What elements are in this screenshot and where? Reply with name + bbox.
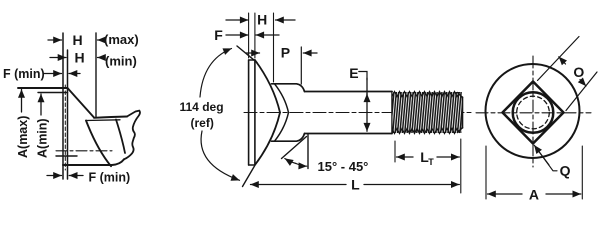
svg-text:L: L [351, 177, 360, 193]
dim A(min) arrow [40, 94, 42, 115]
shank top edge [94, 117, 127, 118]
114 deg upper reference slash [237, 46, 257, 63]
dim F (min) top [44, 73, 62, 75]
head flat face inner line [67, 50, 69, 179]
A(max) extension line (head top) [18, 87, 68, 89]
head flat face (double line) [248, 60, 250, 165]
shank bottom edge [305, 133, 393, 135]
bolt centerline [244, 112, 474, 114]
svg-text:F (min): F (min) [89, 171, 131, 185]
svg-text:A: A [529, 186, 539, 202]
dim LT extension left [394, 141, 396, 162]
cone silhouette upper arc [255, 60, 280, 113]
svg-text:(ref): (ref) [191, 116, 214, 130]
A(min) extension line [38, 92, 68, 94]
thread body hatch [393, 92, 463, 133]
thread end face [462, 97, 464, 128]
dim LT [397, 156, 414, 158]
shank top edge [305, 91, 393, 93]
svg-text:(min): (min) [105, 54, 137, 69]
thread runout line [391, 92, 393, 134]
dim E vertical line [366, 94, 368, 112]
H extension line (head apex) [273, 13, 275, 82]
neck intersection arc 2 [116, 120, 125, 154]
hidden circle (dashed) [517, 96, 550, 129]
Q leader [535, 146, 557, 171]
end view vertical centerline [532, 56, 534, 167]
svg-text:15° - 45°: 15° - 45° [318, 159, 369, 174]
end view horizontal centerline [476, 112, 591, 114]
thread end chamfer bottom [458, 128, 463, 133]
thread crest top zigzag [392, 92, 460, 97]
114 deg upper leader arc [200, 49, 232, 98]
dim P [246, 52, 260, 54]
cone-neck intersection lower arc [275, 113, 289, 142]
conventional break (S-curve) [124, 111, 140, 160]
dim F (min) bottom [47, 175, 62, 177]
neck end line / P extension [300, 47, 302, 84]
svg-text:E: E [349, 65, 358, 81]
dim A(max) arrow [21, 90, 23, 113]
dim L line [251, 184, 347, 186]
neck intersection arc 1 [86, 121, 111, 167]
svg-text:A(max): A(max) [16, 116, 30, 158]
svg-text:F (min): F (min) [3, 67, 45, 81]
A(min) bottom reference line [56, 155, 77, 157]
dim LT/L extension right [460, 139, 462, 193]
dim H row 2 [50, 57, 66, 59]
square neck bottom edge [272, 134, 305, 142]
svg-text:(max): (max) [104, 32, 139, 47]
svg-text:A(min): A(min) [36, 118, 50, 158]
H (max)/(min) extension line [95, 33, 97, 118]
svg-text:H: H [73, 32, 83, 48]
dim A extension left [485, 146, 487, 199]
hidden dashed line of flat face [64, 85, 66, 170]
cone silhouette lower arc [255, 113, 280, 166]
svg-text:Q: Q [560, 163, 571, 179]
square neck top edge [272, 84, 305, 92]
dim H row 1 [48, 39, 62, 41]
svg-text:114 deg: 114 deg [180, 100, 224, 114]
dim A extension right [581, 146, 583, 199]
neck top edge [86, 119, 120, 122]
left view centerline [56, 150, 112, 152]
head circle [486, 64, 580, 158]
cone upper slant [68, 88, 95, 118]
shank circle (solid) [513, 92, 554, 133]
dim F (middle) [226, 34, 248, 36]
114 deg lower reference slash [243, 166, 255, 187]
dim H (middle) [226, 19, 248, 21]
O extension line from top corner [538, 37, 580, 81]
cone-neck intersection upper arc [275, 84, 289, 113]
15-45 angle arc arrows [285, 159, 296, 164]
thread end chamfer top [458, 93, 463, 98]
svg-text:H: H [75, 50, 85, 66]
svg-text:F: F [214, 27, 223, 43]
15-45 chamfer slant line [282, 137, 307, 159]
extension lines above head [248, 13, 250, 58]
head bottom edge [63, 159, 124, 165]
114 deg lower leader arc [201, 131, 239, 180]
head flat face outer line [62, 33, 64, 179]
dim O arrows [559, 57, 566, 64]
dim E elbow [359, 72, 367, 81]
dim A line [488, 193, 523, 195]
svg-text:T: T [428, 157, 434, 167]
square neck (diamond) [503, 82, 564, 144]
svg-text:O: O [573, 64, 584, 80]
thread crest bottom zigzag [392, 129, 460, 134]
svg-text:P: P [281, 45, 290, 61]
15-45 vertical reference line [307, 134, 309, 169]
O extension line from right corner [566, 72, 597, 111]
svg-text:H: H [257, 12, 267, 28]
